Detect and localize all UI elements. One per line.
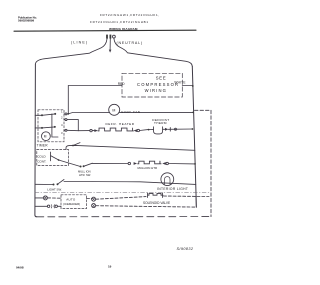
svg-text:LIGHT SW.: LIGHT SW. [47, 187, 62, 191]
svg-text:2: 2 [61, 116, 63, 120]
svg-text:M: M [44, 135, 47, 139]
svg-text:(ICEMAKER): (ICEMAKER) [63, 202, 80, 206]
svg-text:DEFR. HEATER: DEFR. HEATER [106, 122, 135, 126]
svg-text:INTERIOR LIGHT: INTERIOR LIGHT [157, 187, 188, 191]
svg-text:SOLENOID VALVE: SOLENOID VALVE [143, 201, 170, 205]
svg-text:5995209899: 5995209899 [18, 19, 34, 23]
svg-text:SI90832: SI90832 [177, 247, 194, 251]
svg-text:MULLION HTR: MULLION HTR [138, 166, 158, 170]
svg-text:(LINE): (LINE) [71, 40, 88, 44]
svg-text:COLD: COLD [37, 155, 46, 159]
svg-text:AUTO: AUTO [66, 197, 76, 201]
svg-text:FRT22INGHD1,FRT22INGHB1: FRT22INGHD1,FRT22INGHB1 [90, 20, 149, 24]
svg-text:HTR. SW.: HTR. SW. [79, 173, 91, 177]
svg-text:TIMER: TIMER [37, 143, 49, 147]
svg-text:EVAP. FAN: EVAP. FAN [121, 110, 140, 114]
svg-text:3: 3 [61, 131, 63, 135]
svg-text:CONT.: CONT. [37, 159, 46, 163]
svg-text:COMPRESSOR: COMPRESSOR [137, 82, 179, 87]
svg-text:THERM: THERM [154, 121, 167, 125]
svg-text:FRT22INGHW1,FRT22INGHK1,: FRT22INGHW1,FRT22INGHK1, [100, 13, 160, 17]
svg-text:MULL ION: MULL ION [78, 170, 91, 174]
svg-text:SEE: SEE [156, 75, 167, 80]
svg-text:19: 19 [108, 265, 112, 269]
svg-text:4: 4 [61, 123, 63, 127]
svg-text:RED: RED [118, 82, 125, 86]
svg-text:(NEUTRAL): (NEUTRAL) [117, 41, 143, 45]
svg-text:WIRING DIAGRAM: WIRING DIAGRAM [109, 27, 138, 31]
svg-text:04/98: 04/98 [16, 266, 24, 270]
svg-text:WIRING: WIRING [145, 88, 168, 93]
svg-text:M: M [112, 108, 115, 112]
